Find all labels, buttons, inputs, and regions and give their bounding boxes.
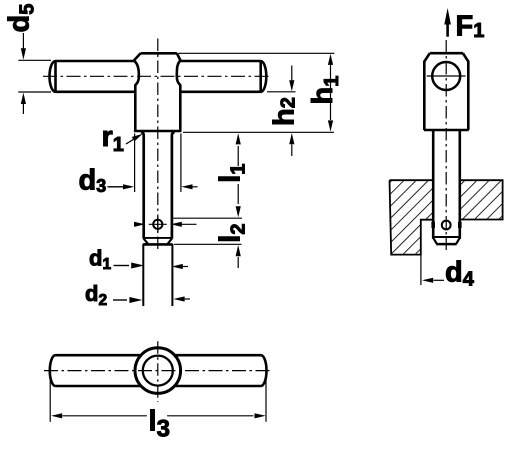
svg-text:l1: l1 <box>215 164 250 183</box>
front view: cross hole with crosshair <box>149 216 167 232</box>
svg-text:d1: d1 <box>89 246 111 274</box>
dimension d3 (hub diameter) <box>79 134 198 197</box>
svg-text:l2: l2 <box>214 224 249 243</box>
front view: handle bar outline <box>50 61 267 92</box>
side view: shaft tip <box>433 237 460 244</box>
front view: hub with concave neck fillets <box>134 61 182 132</box>
dimension d4 (hole diameter in block) <box>421 255 475 291</box>
bottom view: handle bar <box>50 355 267 386</box>
svg-text:d5: d5 <box>4 4 39 33</box>
svg-text:d3: d3 <box>79 165 107 197</box>
svg-text:h2: h2 <box>269 97 301 126</box>
dimension h2 (bar bottom to hub bottom) <box>267 66 301 157</box>
svg-text:d4: d4 <box>445 257 475 291</box>
side view: hub with top chamfers <box>424 53 469 130</box>
dimension d5 (bar diameter, top left) <box>4 4 52 114</box>
svg-text:F1: F1 <box>456 11 485 43</box>
front view: vertical centerline <box>157 39 159 251</box>
side view: bar end circle <box>427 62 466 90</box>
front view: shaft tip (chamfer tangent line, chamfers, bottom face) <box>143 238 173 245</box>
svg-text:r1: r1 <box>102 121 124 156</box>
side view: right clamping block (hatched) <box>460 180 503 219</box>
svg-text:h1: h1 <box>307 76 343 105</box>
bottom view: hub circles <box>135 348 181 394</box>
dimension l2 (hole level to tip) <box>174 224 249 268</box>
shaft diameter arrows at hole level <box>134 222 197 227</box>
front view: center boss (trapezoid on top of hub) <box>134 53 181 60</box>
svg-text:d2: d2 <box>85 281 107 309</box>
side view: vertical centerline <box>445 40 447 250</box>
dimension l1 (hub bottom to hole level) <box>173 132 334 218</box>
svg-text:l3: l3 <box>149 406 170 443</box>
side view: left clamping block (hatched, with counterbore notch) <box>390 180 434 254</box>
side view: force arrow F1 <box>444 8 484 43</box>
side view: cross hole (circle and edge openings) <box>431 221 461 230</box>
dimension h1 (boss top to hub bottom) <box>179 53 344 131</box>
dimension d1 (shaft diameter, extension lines below tip) <box>89 244 188 306</box>
side view: shaft <box>433 130 460 239</box>
bottom view: centerlines <box>44 370 272 372</box>
dimension d2 (tip collar diameter) <box>85 281 190 309</box>
front view: bar centerline <box>43 75 271 77</box>
front view: shaft with r1 fillets <box>141 132 175 239</box>
leader r1 (fillet radius) <box>102 121 143 156</box>
dimension l3 (overall bar length) <box>50 373 266 443</box>
